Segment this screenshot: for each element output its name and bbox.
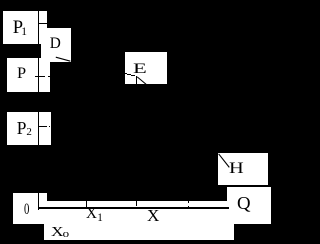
text label 0: [24, 202, 29, 218]
label box D (demand curve label): [41, 28, 71, 62]
dashed vertical guide above axis (lower dash): [188, 206, 189, 208]
axis tick at X1: [86, 201, 87, 208]
text label P2: [17, 120, 32, 137]
dashed price guide line (segment 3): [131, 75, 135, 76]
text label P: [17, 66, 26, 82]
text label Q: [237, 195, 251, 212]
label box H (supply curve label): [218, 153, 268, 185]
axis tick at X: [136, 201, 137, 206]
wire vertical price axis: [38, 10, 39, 210]
wire horizontal quantity axis: [38, 207, 230, 208]
dashed guide line at price P1: [39, 23, 47, 24]
label box P1 (price level P1): [3, 11, 47, 45]
text label X: [147, 208, 159, 225]
label box P2 (price level P2): [7, 112, 51, 146]
label box E (equilibrium point): [125, 52, 167, 84]
dashed guide line at price P2 (segment 1): [39, 126, 47, 127]
text label P1: [13, 19, 27, 38]
white band along horizontal axis: [39, 201, 230, 225]
text label E: [133, 62, 147, 77]
label box Q (quantity axis label): [227, 187, 271, 223]
label box P (equilibrium price): [7, 58, 51, 91]
dashed guide line at price P2 (segment 2): [48, 126, 51, 127]
white band below axis tick labels: [44, 222, 234, 239]
text label H: [229, 161, 244, 177]
text label D: [50, 36, 61, 51]
dashed guide line at price P (segment 2): [48, 76, 51, 77]
dashed vertical guide above axis (upper dash): [188, 201, 189, 204]
text label Xo: [51, 225, 69, 239]
dashed price guide line stepping into E box (segment 1): [125, 73, 127, 74]
text label X1: [86, 206, 103, 222]
vertical quantity guide dropping from point E: [136, 76, 137, 84]
dashed guide line at price P (segment 1): [35, 76, 45, 77]
dashed price guide line (segment 2): [127, 74, 131, 75]
label box 0 (origin): [13, 193, 47, 224]
